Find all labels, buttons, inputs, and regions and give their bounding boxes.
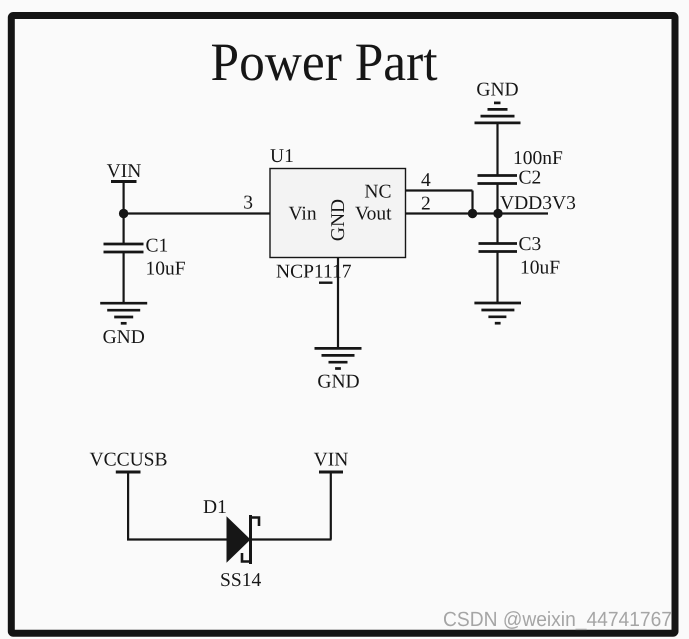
svg-text:GND: GND xyxy=(103,327,145,348)
svg-text:Vout: Vout xyxy=(355,204,392,225)
wire VCCUSB down xyxy=(127,472,129,540)
svg-text:GND: GND xyxy=(328,199,349,241)
svg-text:Power Part: Power Part xyxy=(211,32,438,92)
wire up to VIN xyxy=(330,472,332,540)
svg-text:NCP1117: NCP1117 xyxy=(276,262,352,283)
capacitor C2 xyxy=(478,176,518,214)
wire U1 pin 4 NC xyxy=(406,191,473,214)
capacitor C1 xyxy=(104,214,144,304)
wire node to U1 pin 3 xyxy=(124,212,270,214)
wire VDD3V3 net xyxy=(473,212,549,214)
ground U1 xyxy=(315,348,362,392)
svg-text:100nF: 100nF xyxy=(513,148,563,169)
svg-text:VIN: VIN xyxy=(107,161,142,182)
svg-text:NC: NC xyxy=(364,182,391,203)
svg-text:3: 3 xyxy=(243,193,253,214)
power port VIN (bottom-right) xyxy=(314,450,349,473)
svg-text:VCCUSB: VCCUSB xyxy=(89,450,167,471)
svg-text:SS14: SS14 xyxy=(220,570,261,591)
svg-text:10uF: 10uF xyxy=(520,257,560,278)
svg-text:C2: C2 xyxy=(519,168,542,189)
svg-text:C1: C1 xyxy=(146,236,169,257)
diode D1 xyxy=(227,515,260,564)
wire GND to C2 xyxy=(496,123,498,175)
ground top (inverted) xyxy=(475,80,521,123)
svg-text:4: 4 xyxy=(421,170,431,191)
ground C3 xyxy=(474,303,521,323)
wire VCCUSB to D1 xyxy=(127,538,227,540)
svg-text:D1: D1 xyxy=(203,497,227,518)
svg-text:C3: C3 xyxy=(519,234,542,255)
svg-text:Vin: Vin xyxy=(289,204,317,225)
capacitor C3 xyxy=(479,214,518,303)
op-amp U1 box xyxy=(270,146,406,283)
node junction C2/C3 xyxy=(493,209,502,218)
wire U1 pin 2 Vout xyxy=(406,212,473,214)
svg-text:GND: GND xyxy=(476,80,518,101)
svg-text:U1: U1 xyxy=(270,146,294,167)
wire U1 pin 7 GND xyxy=(337,258,339,349)
svg-text:VDD3V3: VDD3V3 xyxy=(500,193,576,214)
node junction pin2/pin4 xyxy=(468,209,477,218)
wire VIN to node xyxy=(122,182,124,214)
svg-text:GND: GND xyxy=(317,372,359,393)
svg-text:10uF: 10uF xyxy=(146,259,186,280)
svg-text:CSDN @weixin_44741767: CSDN @weixin_44741767 xyxy=(443,608,672,631)
wire D1 to VIN xyxy=(251,538,332,540)
svg-text:VIN: VIN xyxy=(314,450,349,471)
power port VCCUSB xyxy=(89,450,167,473)
svg-text:2: 2 xyxy=(421,194,431,215)
ground C1 xyxy=(100,303,147,348)
power port VIN (top-left) xyxy=(107,161,142,182)
node junction VIN/C1 xyxy=(119,209,128,218)
